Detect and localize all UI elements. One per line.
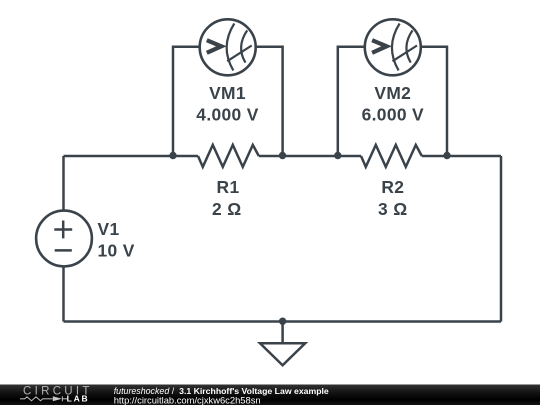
svg-text:VM2: VM2 [374,83,411,103]
voltage source V1 body circle [36,211,92,267]
wire: left branch from V1 bottom terminal down to bottom rail [62,267,65,322]
node junction dot: R1 right / VM1 right [279,152,286,159]
voltage source V1 plus sign [54,221,72,239]
svg-text:3 Ω: 3 Ω [378,199,408,219]
svg-text:LAB: LAB [67,393,90,403]
ground symbol triangle [260,343,305,365]
voltmeter VM2 meter glyph [372,24,417,71]
svg-text:V1: V1 [98,219,120,239]
voltmeter VM2 body circle [365,19,421,75]
svg-text:4.000 V: 4.000 V [196,105,258,125]
svg-text:R2: R2 [381,177,404,197]
resistor R2 zigzag body [361,145,422,167]
CircuitLab logo diode triangle [53,396,62,401]
wire: right branch down [500,156,503,322]
svg-text:VM1: VM1 [209,83,246,103]
voltmeter VM1 meter glyph [207,24,252,71]
wire: top rail from R2 to top-right corner [422,155,501,158]
svg-text:2 Ω: 2 Ω [212,199,242,219]
CircuitLab logo schematic squiggle (resistor + diode) [20,396,67,401]
svg-text:10 V: 10 V [98,241,135,261]
svg-text:R1: R1 [217,177,240,197]
ground symbol stub wire [281,322,284,344]
wire: VM1 left lead [173,47,200,156]
wire: bottom rail [64,320,502,323]
node junction dot: R1 left / VM1 left [169,152,176,159]
voltmeter VM1 body circle [200,19,256,75]
node junction dot: R2 left / VM2 left [334,152,341,159]
voltage source V1 minus sign [55,249,72,252]
wire: VM2 left lead [338,47,365,156]
wire: top rail between R1 and R2 [259,155,361,158]
node junction dot: R2 right / VM2 right [443,152,450,159]
wire: top rail from top-left corner to R1 left node [64,155,199,158]
svg-text:http://circuitlab.com/cjxkw6c2: http://circuitlab.com/cjxkw6c2h58sn [114,394,261,405]
wire: VM1 right lead [256,47,283,156]
footer bar background [0,385,540,405]
svg-text:6.000 V: 6.000 V [362,105,424,125]
wire: left branch from top rail down to V1 top terminal [62,156,65,211]
wire: VM2 right lead [421,47,447,156]
node junction dot: ground tap on bottom rail [279,318,286,325]
resistor R1 zigzag body [198,145,259,167]
